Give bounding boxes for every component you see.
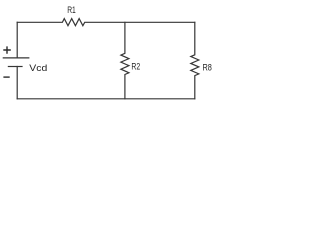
svg-text:R1: R1 <box>67 5 76 15</box>
svg-text:R8: R8 <box>203 63 212 73</box>
svg-text:R2: R2 <box>131 61 140 71</box>
svg-text:Vcd: Vcd <box>29 63 47 73</box>
